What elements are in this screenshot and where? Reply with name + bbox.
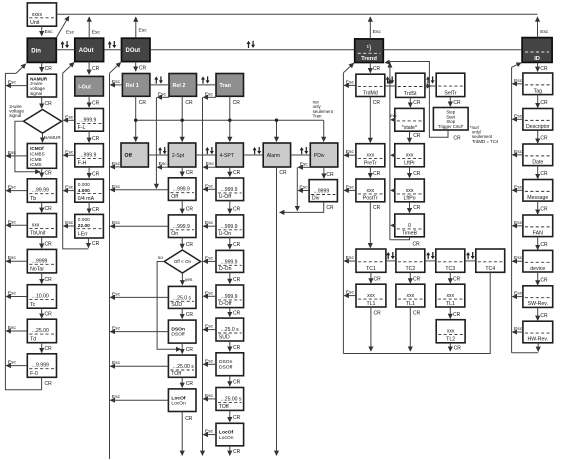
svg-text:Esc: Esc bbox=[112, 360, 121, 366]
svg-text:TOff: TOff bbox=[171, 371, 181, 377]
svg-text:Esc: Esc bbox=[112, 326, 121, 332]
svg-text:F-0: F-0 bbox=[30, 371, 38, 377]
svg-text:TC2: TC2 bbox=[405, 266, 415, 272]
svg-text:LftPr: LftPr bbox=[404, 161, 415, 167]
svg-text:2-Spt: 2-Spt bbox=[172, 153, 185, 159]
svg-text:CR: CR bbox=[540, 242, 548, 248]
svg-text:CR: CR bbox=[540, 171, 548, 177]
svg-text:ICMBS: ICMBS bbox=[30, 152, 45, 157]
svg-text:xxx: xxx bbox=[32, 222, 40, 228]
svg-text:Trend: Trend bbox=[361, 56, 377, 62]
svg-text:¹): ¹) bbox=[367, 43, 372, 52]
svg-text:Esc: Esc bbox=[8, 291, 17, 297]
svg-text:TC3: TC3 bbox=[445, 266, 455, 272]
svg-text:CR: CR bbox=[233, 207, 241, 213]
svg-text:CR: CR bbox=[540, 278, 548, 284]
svg-text:Esc: Esc bbox=[514, 113, 523, 119]
svg-text:CR: CR bbox=[139, 100, 147, 106]
svg-text:Tb: Tb bbox=[30, 196, 36, 202]
svg-text:CR: CR bbox=[92, 241, 100, 247]
svg-text:CR: CR bbox=[540, 100, 548, 106]
svg-text:yes: yes bbox=[185, 277, 193, 282]
svg-text:Esc: Esc bbox=[300, 161, 309, 167]
svg-text:Esc: Esc bbox=[65, 114, 74, 120]
svg-text:Esc: Esc bbox=[206, 161, 215, 167]
svg-text:Date: Date bbox=[532, 159, 543, 165]
svg-text:TL1: TL1 bbox=[446, 301, 455, 307]
svg-text:CR: CR bbox=[186, 207, 194, 213]
svg-text:CR: CR bbox=[413, 311, 421, 317]
svg-text:Esc: Esc bbox=[112, 161, 121, 167]
svg-text:CR: CR bbox=[373, 171, 381, 177]
svg-text:xxx: xxx bbox=[367, 188, 375, 194]
svg-text:TOff: TOff bbox=[219, 404, 229, 410]
svg-text:xxx: xxx bbox=[447, 329, 455, 335]
svg-text:CR: CR bbox=[453, 135, 461, 141]
svg-text:ICMS: ICMS bbox=[30, 162, 41, 167]
svg-text:Esc: Esc bbox=[66, 29, 75, 35]
svg-text:Esc: Esc bbox=[65, 185, 74, 191]
svg-text:Esc: Esc bbox=[205, 91, 214, 97]
svg-text:Esc: Esc bbox=[205, 183, 214, 189]
svg-text:xxx: xxx bbox=[367, 293, 375, 299]
svg-text:DOut: DOut bbox=[126, 48, 141, 54]
svg-text:Esc: Esc bbox=[346, 79, 355, 85]
svg-text:Esc: Esc bbox=[8, 219, 17, 225]
svg-text:DSOff: DSOff bbox=[171, 332, 185, 338]
svg-text:Esc: Esc bbox=[346, 149, 355, 155]
svg-text:Tran: Tran bbox=[313, 113, 322, 118]
svg-text:TC1: TC1 bbox=[366, 266, 376, 272]
svg-text:TimeB: TimeB bbox=[402, 231, 417, 237]
svg-text:Rel 2: Rel 2 bbox=[173, 83, 186, 89]
svg-text:Esc: Esc bbox=[514, 184, 523, 190]
svg-text:ICMB: ICMB bbox=[30, 157, 41, 162]
svg-text:TrdSt: TrdSt bbox=[404, 91, 417, 97]
svg-text:...999.9: ...999.9 bbox=[221, 259, 238, 265]
svg-text:CR: CR bbox=[186, 242, 194, 248]
svg-text:Tran: Tran bbox=[220, 83, 231, 89]
svg-text:CR: CR bbox=[233, 277, 241, 283]
svg-text:CR: CR bbox=[45, 241, 53, 247]
svg-text:xxxx: xxxx bbox=[32, 12, 43, 18]
svg-text:Esc: Esc bbox=[514, 78, 523, 84]
svg-text:CR: CR bbox=[413, 276, 421, 282]
svg-text:Esc: Esc bbox=[112, 184, 121, 190]
svg-text:...9999: ...9999 bbox=[314, 189, 330, 195]
svg-text:U-Off: U-Off bbox=[219, 194, 232, 200]
svg-text:4-SPT: 4-SPT bbox=[220, 153, 234, 159]
svg-text:Td: Td bbox=[30, 336, 36, 342]
svg-text:Esc: Esc bbox=[540, 29, 549, 35]
svg-text:Esc: Esc bbox=[112, 79, 121, 85]
svg-text:...25.0 s: ...25.0 s bbox=[173, 295, 192, 301]
svg-text:...10.00: ...10.00 bbox=[32, 294, 49, 300]
svg-text:CR: CR bbox=[373, 66, 381, 72]
svg-text:CR: CR bbox=[233, 415, 241, 421]
svg-text:CR: CR bbox=[45, 101, 53, 107]
svg-text:22.00: 22.00 bbox=[78, 223, 90, 229]
svg-text:CR: CR bbox=[374, 311, 382, 317]
svg-text:CR: CR bbox=[233, 345, 241, 351]
svg-text:F-H: F-H bbox=[78, 161, 87, 167]
svg-text:CR: CR bbox=[413, 171, 421, 177]
svg-text:Unit: Unit bbox=[30, 20, 40, 26]
svg-text:...999.9: ...999.9 bbox=[221, 294, 238, 300]
svg-text:Off: Off bbox=[125, 153, 133, 159]
svg-text:TL1: TL1 bbox=[406, 301, 415, 307]
svg-text:Esc: Esc bbox=[139, 28, 148, 34]
svg-text:CR: CR bbox=[45, 381, 53, 387]
svg-text:...999.9: ...999.9 bbox=[173, 224, 190, 230]
svg-text:CR: CR bbox=[92, 207, 100, 213]
svg-text:CR: CR bbox=[186, 381, 194, 387]
svg-text:Esc: Esc bbox=[514, 255, 523, 261]
svg-text:Esc: Esc bbox=[8, 185, 17, 191]
svg-text:Esc: Esc bbox=[205, 220, 214, 226]
svg-text:PostTr: PostTr bbox=[363, 196, 378, 202]
svg-text:xxx: xxx bbox=[407, 293, 415, 299]
svg-text:CR: CR bbox=[92, 66, 100, 72]
svg-text:CR: CR bbox=[139, 66, 147, 72]
svg-text:LftPo: LftPo bbox=[403, 196, 415, 202]
svg-text:...9999: ...9999 bbox=[32, 258, 48, 264]
svg-text:On: On bbox=[171, 231, 178, 237]
svg-text:Esc: Esc bbox=[205, 358, 214, 364]
svg-text:xxx: xxx bbox=[367, 153, 375, 159]
svg-text:CR: CR bbox=[453, 276, 461, 282]
svg-text:Esc: Esc bbox=[65, 149, 74, 155]
svg-text:LocOf: LocOf bbox=[171, 395, 185, 401]
svg-text:AOut: AOut bbox=[79, 48, 94, 54]
svg-text:...25.00: ...25.00 bbox=[32, 328, 49, 334]
svg-text:CR: CR bbox=[373, 205, 381, 211]
svg-text:...25.0 s: ...25.0 s bbox=[221, 327, 240, 333]
svg-text:LocOf: LocOf bbox=[219, 430, 233, 436]
svg-text:DSOff: DSOff bbox=[219, 364, 233, 370]
svg-text:SUD: SUD bbox=[219, 335, 230, 341]
svg-text:Rel 1: Rel 1 bbox=[126, 83, 139, 89]
svg-text:...25.00 s: ...25.00 s bbox=[173, 364, 194, 370]
svg-text:Tc: Tc bbox=[30, 302, 36, 308]
svg-text:CR: CR bbox=[413, 133, 421, 139]
svg-text:Esc: Esc bbox=[514, 291, 523, 297]
svg-text:0: 0 bbox=[408, 223, 411, 229]
svg-text:CR: CR bbox=[233, 170, 241, 176]
svg-text:Esc: Esc bbox=[45, 29, 54, 35]
svg-text:CR: CR bbox=[92, 100, 100, 106]
svg-text:CR: CR bbox=[45, 346, 53, 352]
svg-text:...999.9: ...999.9 bbox=[173, 187, 190, 193]
svg-text:LocOn: LocOn bbox=[219, 435, 234, 441]
svg-text:TbUnit: TbUnit bbox=[30, 231, 46, 237]
svg-text:Trigger Cmd*: Trigger Cmd* bbox=[438, 124, 464, 129]
svg-text:CR: CR bbox=[233, 242, 241, 248]
svg-text:DSOn: DSOn bbox=[219, 359, 233, 365]
svg-text:Esc: Esc bbox=[112, 394, 121, 400]
svg-text:TC4: TC4 bbox=[485, 266, 495, 272]
svg-text:Esc: Esc bbox=[390, 113, 397, 118]
svg-text:xxx: xxx bbox=[446, 293, 454, 299]
svg-text:SUD: SUD bbox=[171, 302, 182, 308]
svg-text:TrdMd: TrdMd bbox=[363, 90, 378, 96]
svg-text:...999.9: ...999.9 bbox=[79, 117, 96, 123]
svg-text:O-On: O-On bbox=[219, 266, 232, 272]
svg-text:HW-Rev.: HW-Rev. bbox=[528, 337, 549, 343]
svg-text:NAMUR: NAMUR bbox=[44, 135, 62, 140]
svg-text:device: device bbox=[530, 266, 545, 272]
svg-text:CR: CR bbox=[185, 100, 193, 106]
svg-text:Esc: Esc bbox=[346, 184, 355, 190]
svg-text:...999.9: ...999.9 bbox=[221, 187, 238, 193]
svg-text:...999.9: ...999.9 bbox=[221, 224, 238, 230]
svg-text:CR: CR bbox=[233, 100, 241, 106]
svg-text:Esc: Esc bbox=[514, 149, 523, 155]
svg-text:CR: CR bbox=[373, 100, 381, 106]
svg-text:Esc: Esc bbox=[514, 220, 523, 226]
svg-text:Div: Div bbox=[312, 195, 320, 201]
svg-text:ID: ID bbox=[534, 56, 540, 62]
svg-text:U-On: U-On bbox=[219, 231, 232, 237]
svg-text:...999.9: ...999.9 bbox=[79, 153, 96, 159]
svg-text:Esc: Esc bbox=[346, 290, 355, 296]
svg-text:SW-Rev.: SW-Rev. bbox=[528, 301, 548, 307]
svg-text:Off: Off bbox=[171, 194, 178, 200]
svg-text:0.000: 0.000 bbox=[78, 217, 90, 223]
svg-text:0.000: 0.000 bbox=[78, 182, 90, 188]
svg-text:signal: signal bbox=[30, 91, 42, 96]
svg-text:CR: CR bbox=[45, 277, 53, 283]
svg-text:CR: CR bbox=[233, 449, 241, 455]
svg-text:CR: CR bbox=[45, 206, 53, 212]
svg-text:LocOn: LocOn bbox=[171, 401, 186, 407]
svg-text:CR: CR bbox=[186, 347, 194, 353]
svg-text:Esc: Esc bbox=[92, 29, 101, 35]
svg-text:Esc: Esc bbox=[205, 324, 214, 330]
svg-text:Esc: Esc bbox=[205, 429, 214, 435]
svg-text:xxx: xxx bbox=[406, 153, 414, 159]
svg-text:CR: CR bbox=[326, 205, 334, 211]
svg-text:Esc: Esc bbox=[8, 360, 17, 366]
svg-text:DSOn: DSOn bbox=[171, 327, 185, 333]
svg-text:Esc: Esc bbox=[8, 325, 17, 331]
svg-text:F-L: F-L bbox=[78, 125, 86, 131]
svg-text:Alarm: Alarm bbox=[267, 153, 280, 159]
svg-text:CR: CR bbox=[45, 66, 53, 72]
svg-text:Esc: Esc bbox=[8, 150, 17, 156]
svg-text:ICMOf: ICMOf bbox=[30, 146, 44, 151]
svg-text:I-Out: I-Out bbox=[78, 84, 91, 90]
svg-text:CR: CR bbox=[413, 100, 421, 106]
svg-text:Din: Din bbox=[31, 49, 41, 55]
svg-text:CR: CR bbox=[45, 171, 53, 177]
svg-text:TL1: TL1 bbox=[366, 301, 375, 307]
svg-text:FAN: FAN bbox=[533, 230, 543, 236]
svg-text:CR: CR bbox=[45, 312, 53, 318]
svg-text:CR: CR bbox=[413, 242, 421, 248]
svg-text:CR: CR bbox=[186, 170, 194, 176]
svg-text:no: no bbox=[158, 255, 164, 260]
svg-text:CR: CR bbox=[413, 205, 421, 211]
svg-text:Esc: Esc bbox=[112, 220, 121, 226]
svg-text:Esc: Esc bbox=[205, 393, 214, 399]
svg-text:CR: CR bbox=[453, 100, 461, 106]
svg-text:CR: CR bbox=[92, 171, 100, 177]
svg-text:O-Off: O-Off bbox=[219, 301, 232, 307]
svg-text:CR: CR bbox=[374, 276, 382, 282]
svg-text:0/4 mA: 0/4 mA bbox=[78, 196, 95, 202]
svg-text:Esc: Esc bbox=[8, 80, 17, 86]
svg-text:CR: CR bbox=[453, 312, 461, 318]
svg-text:CR: CR bbox=[233, 310, 241, 316]
svg-text:4.000: 4.000 bbox=[78, 188, 90, 194]
svg-text:...9.999: ...9.999 bbox=[32, 363, 49, 369]
svg-text:PreTr: PreTr bbox=[364, 161, 377, 167]
svg-text:Esc: Esc bbox=[346, 255, 355, 261]
svg-text:Esc: Esc bbox=[373, 29, 382, 35]
svg-text:...99.99: ...99.99 bbox=[32, 188, 49, 194]
svg-text:CR: CR bbox=[186, 312, 194, 318]
svg-text:CR: CR bbox=[454, 345, 462, 351]
svg-text:CR: CR bbox=[279, 170, 287, 176]
svg-text:Esc: Esc bbox=[205, 255, 214, 261]
svg-text:Esc: Esc bbox=[65, 220, 74, 226]
svg-text:TrdMD = TC4: TrdMD = TC4 bbox=[472, 139, 499, 144]
svg-text:CR: CR bbox=[540, 136, 548, 142]
svg-text:CR: CR bbox=[233, 379, 241, 385]
svg-text:Esc: Esc bbox=[8, 255, 17, 261]
svg-text:Esc: Esc bbox=[299, 185, 308, 191]
svg-text:xxx: xxx bbox=[406, 188, 414, 194]
svg-text:CR: CR bbox=[92, 136, 100, 142]
svg-text:*state*: *state* bbox=[402, 125, 417, 131]
svg-text:NoTar: NoTar bbox=[30, 267, 44, 273]
svg-text:Message: Message bbox=[527, 195, 548, 201]
svg-text:CR: CR bbox=[540, 313, 548, 319]
svg-text:CR: CR bbox=[326, 172, 334, 178]
svg-text:CR: CR bbox=[540, 207, 548, 213]
svg-text:Descriptor: Descriptor bbox=[526, 124, 550, 130]
svg-text:I-Err: I-Err bbox=[78, 232, 88, 238]
svg-text:Esc: Esc bbox=[159, 161, 168, 167]
svg-text:Esc: Esc bbox=[514, 326, 523, 332]
svg-text:Tag: Tag bbox=[534, 88, 542, 94]
svg-text:Esc: Esc bbox=[112, 291, 121, 297]
svg-text:TL2: TL2 bbox=[446, 337, 455, 343]
svg-text:Esc: Esc bbox=[205, 290, 214, 296]
svg-text:Off < On: Off < On bbox=[174, 259, 192, 264]
svg-text:PDiv: PDiv bbox=[314, 153, 325, 159]
svg-text:Esc: Esc bbox=[158, 91, 167, 97]
svg-text:signal: signal bbox=[9, 113, 21, 118]
svg-text:CR: CR bbox=[540, 66, 548, 72]
svg-text:CR: CR bbox=[185, 416, 193, 422]
svg-text:...25.00 s: ...25.00 s bbox=[221, 396, 242, 402]
svg-text:SelTr: SelTr bbox=[444, 90, 456, 96]
